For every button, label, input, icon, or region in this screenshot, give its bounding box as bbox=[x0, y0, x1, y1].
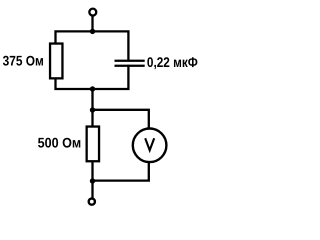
wire: main line from node B down to bottom terminal bbox=[91, 89, 93, 201]
resistor R2 (500 Ом) bbox=[87, 127, 99, 162]
svg-text:0,22 мкФ: 0,22 мкФ bbox=[147, 54, 198, 70]
wire: capacitor gap erase bbox=[124, 62, 134, 65]
wire: section-2 parallel loop (rails + voltmeter lead) bbox=[93, 110, 149, 181]
terminal T1 (top) bbox=[89, 9, 96, 16]
wire: section-1 parallel loop (rails + branch leads) bbox=[56, 31, 129, 89]
node C junction dot bbox=[90, 107, 95, 112]
voltmeter U1 body bbox=[133, 129, 167, 163]
wire: top stub from terminal to node A bbox=[91, 12, 93, 33]
node A junction dot bbox=[90, 29, 95, 34]
svg-text:500 Ом: 500 Ом bbox=[38, 134, 82, 150]
svg-text:375 Ом: 375 Ом bbox=[3, 53, 44, 69]
terminal T2 (bottom) bbox=[89, 199, 95, 205]
resistor R1 (375 Ом) bbox=[50, 44, 62, 79]
node D junction dot bbox=[90, 178, 95, 183]
node B junction dot bbox=[90, 86, 95, 91]
voltmeter V label bbox=[145, 138, 154, 150]
capacitor C1 plates bbox=[115, 60, 145, 62]
